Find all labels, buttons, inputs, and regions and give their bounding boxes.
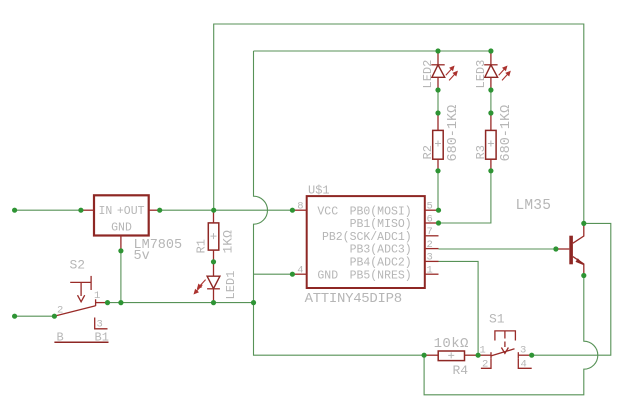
wire GND rail [108, 302, 254, 304]
svg-text:8: 8 [297, 201, 303, 213]
transistor LM35 emitter arrow [576, 258, 585, 265]
LED1 emission arrows [194, 280, 205, 294]
node S2 pin1 [105, 300, 110, 305]
IC pin 4 stub [292, 273, 306, 275]
svg-text:S1: S1 [489, 312, 505, 327]
svg-text:2: 2 [427, 239, 433, 251]
resistor R3 value cross [488, 141, 494, 147]
node R1 bottom [211, 259, 216, 264]
svg-text:2: 2 [57, 305, 63, 317]
IC pin 8 stub [292, 209, 306, 211]
switch S2 link [80, 283, 82, 296]
IC pin 7 stub [425, 235, 439, 237]
wire R2 to IC pin5 [437, 171, 439, 210]
node regulator in [78, 208, 83, 213]
node LM35 collector [581, 221, 586, 226]
svg-text:680-1KΩ: 680-1KΩ [446, 105, 461, 162]
wire outer loop: rail up, across top, down to LM35 collector [214, 24, 584, 223]
node S2 pin2 [52, 314, 57, 319]
node R4 right [476, 353, 481, 358]
node LED3 top [488, 48, 493, 53]
switch S1 pin 1 stub [478, 354, 491, 356]
wire LED2 to R2 [437, 90, 439, 113]
svg-text:ATTINY45DIP8: ATTINY45DIP8 [305, 291, 402, 307]
svg-text:PB3(ADC3): PB3(ADC3) [350, 244, 412, 257]
wire R3 down and left to IC pin6 [439, 171, 491, 223]
svg-text:PB5(NRES): PB5(NRES) [350, 269, 412, 282]
transistor LM35 emitter [573, 257, 584, 276]
svg-text:7: 7 [427, 226, 433, 238]
node gnd rail right [251, 300, 256, 305]
node IC pin4 [290, 272, 295, 277]
resistor R2 [437, 113, 439, 130]
switch S1 contact tick right [517, 352, 519, 358]
svg-text:S2: S2 [70, 258, 86, 273]
switch S2 pin 3 stub [95, 318, 108, 329]
svg-text:680-1KΩ: 680-1KΩ [499, 105, 514, 162]
wire main 5V rail left [15, 209, 81, 211]
svg-text:4: 4 [297, 265, 303, 277]
regulator pin stub left [81, 209, 94, 211]
battery B1 symbol line [54, 341, 108, 343]
wire inner vertical upper with hump over 5V rail [254, 51, 425, 355]
svg-text:R4: R4 [453, 363, 469, 378]
node IC pin5 [436, 208, 441, 213]
svg-text:6: 6 [427, 213, 433, 225]
node LED1 bottom rail [211, 300, 216, 305]
switch S2 pin 1 stub [96, 302, 108, 304]
regulator pin stub GND [120, 236, 122, 251]
resistor R1 [208, 223, 219, 250]
node R3 bottom [488, 168, 493, 173]
switch S2 actuator [70, 281, 91, 283]
node R2 bottom [435, 168, 440, 173]
svg-text:5: 5 [427, 201, 433, 213]
svg-text:1: 1 [427, 265, 433, 277]
svg-text:LED1: LED1 [224, 271, 238, 300]
IC pin 2 stub [425, 248, 439, 250]
node regulator gnd pin [118, 248, 123, 253]
wire LED3 to R3 [490, 90, 492, 113]
svg-text:PB4(ADC2): PB4(ADC2) [350, 257, 412, 270]
node S1 right [529, 353, 534, 358]
wire IC pin2 to LM35 base [439, 248, 556, 250]
svg-text:2: 2 [482, 359, 488, 371]
wire IC pin4 to GND vertical [254, 273, 293, 275]
resistor R2 value cross [435, 141, 441, 147]
svg-text:R3: R3 [474, 145, 488, 159]
svg-text:3: 3 [520, 345, 526, 357]
wire 5V rail right of regulator [160, 209, 293, 211]
switch S2 lever [55, 306, 96, 316]
node LED2 bottom [435, 87, 440, 92]
svg-text:4: 4 [521, 359, 527, 371]
IC pin 5 stub [425, 209, 439, 211]
IC pin 1 stub [425, 273, 439, 275]
resistor R4 [424, 354, 438, 356]
node rail left [12, 208, 17, 213]
svg-text:10kΩ: 10kΩ [434, 336, 469, 352]
node LM35 emitter [581, 273, 586, 278]
svg-text:VCC: VCC [317, 205, 338, 218]
svg-text:PB1(MISO): PB1(MISO) [350, 218, 412, 231]
svg-text:R1: R1 [195, 239, 209, 253]
node IC pin6 [436, 220, 441, 225]
wire regulator GND to rail [120, 251, 122, 303]
svg-text:PB0(MOSI): PB0(MOSI) [350, 205, 412, 218]
node R4 left [422, 353, 427, 358]
svg-text:IN: IN [99, 205, 113, 218]
transistor LM35 collector [573, 223, 584, 243]
IC pin 3 stub [425, 260, 439, 262]
switch S1 actuator bracket [495, 331, 516, 341]
svg-text:5v: 5v [134, 249, 150, 264]
wire IC pin3 down to S1 junction [439, 261, 479, 355]
IC U$1 ATTINY45DIP8 box [307, 196, 425, 288]
node LED3 bottom [488, 87, 493, 92]
svg-text:3: 3 [427, 252, 433, 264]
node regulator out [157, 208, 162, 213]
resistor R1 value cross [211, 233, 217, 239]
svg-text:U$1: U$1 [308, 184, 330, 198]
node IC pin8 [290, 208, 295, 213]
svg-text:GND: GND [111, 222, 132, 235]
resistor R4 value cross [448, 352, 454, 358]
svg-text:1: 1 [94, 290, 100, 302]
wire inner top rail to LEDs [254, 50, 491, 52]
switch S1 pin 4 stub [518, 358, 531, 368]
node LM35 base [553, 246, 558, 251]
LED3 emission arrows [499, 66, 510, 80]
switch S2 link arrow [78, 295, 85, 302]
IC pin 6 stub [425, 222, 439, 224]
node LED2 top [435, 48, 440, 53]
wire LM35 emitter down with hump, bottom return [424, 276, 598, 395]
switch S1 link arrow [501, 348, 508, 354]
svg-text:3: 3 [97, 319, 103, 331]
svg-text:GND: GND [317, 269, 338, 282]
switch S1 contact tick left [490, 352, 492, 358]
transistor LM35 base bar [569, 236, 573, 265]
svg-text:PB2(SCK/ADC1): PB2(SCK/ADC1) [322, 231, 412, 244]
LED1 [213, 262, 215, 276]
svg-text:R2: R2 [421, 145, 435, 159]
wire S1 right to LM35 collector loop [532, 223, 611, 355]
switch S1 pin 3 stub [518, 354, 531, 356]
LED2 emission arrows [446, 66, 457, 80]
resistor R3 [490, 113, 492, 130]
switch S1 lever [491, 349, 515, 356]
switch S1 pin 2 stub [481, 358, 491, 368]
LED2 [437, 51, 439, 65]
switch S2 contact tick [95, 299, 97, 306]
svg-text:+OUT: +OUT [117, 205, 145, 218]
regulator pin stub right [149, 209, 160, 211]
wire battery rail to S2 [15, 315, 55, 317]
switch S1 link dashes [504, 331, 506, 339]
svg-text:LED2: LED2 [421, 60, 435, 89]
node regulator gnd rail [118, 300, 123, 305]
svg-text:LM35: LM35 [516, 198, 552, 214]
svg-text:1KΩ: 1KΩ [221, 230, 236, 254]
svg-text:LED3: LED3 [474, 60, 488, 89]
node R2 top [435, 110, 440, 115]
node R3 top [488, 110, 493, 115]
transistor LM35 base stub [556, 248, 569, 250]
voltage regulator LM7805 box [94, 195, 149, 235]
node rail R1 junction [211, 208, 216, 213]
LED3 [490, 51, 492, 65]
node battery rail left [12, 314, 17, 319]
